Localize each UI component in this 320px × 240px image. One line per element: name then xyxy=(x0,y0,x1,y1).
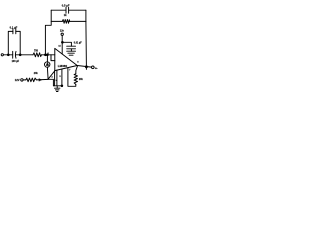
svg-text:0.1 µF: 0.1 µF xyxy=(10,25,18,29)
node A xyxy=(7,54,9,56)
resistor R1 750 xyxy=(33,53,42,57)
svg-text:0.01 µF: 0.01 µF xyxy=(74,43,82,45)
svg-text:14: 14 xyxy=(58,44,61,47)
resistor R2 1k xyxy=(62,20,69,24)
output terminal xyxy=(92,66,95,69)
svg-text:20k: 20k xyxy=(79,79,84,81)
capacitor C1 0.1uF bypass loop xyxy=(8,31,13,54)
svg-text:12v: 12v xyxy=(60,30,65,33)
resistor R4 20k vertical xyxy=(74,74,77,85)
input terminal xyxy=(1,54,3,56)
svg-text:0.5 µF: 0.5 µF xyxy=(62,3,70,7)
svg-text:8: 8 xyxy=(77,62,79,64)
op-amp U1 LM380 xyxy=(55,48,77,70)
svg-text:12V: 12V xyxy=(15,78,20,82)
current source Q1 xyxy=(46,55,48,62)
wire ground rail xyxy=(53,85,62,87)
wire pin 2 diagonal xyxy=(48,71,54,79)
node C xyxy=(45,54,47,56)
resistor R3 20k xyxy=(26,78,37,82)
wire with arrow xyxy=(37,78,49,81)
wire feedback top rail xyxy=(51,9,66,11)
capacitor C2 100uF electrolytic xyxy=(12,51,14,58)
capacitor C3 0.5uF xyxy=(65,7,67,13)
svg-text:750: 750 xyxy=(34,50,39,53)
node D xyxy=(62,41,64,43)
svg-text:5: 5 xyxy=(60,76,62,78)
wire lead to R4 xyxy=(76,66,78,74)
svg-text:100 µF: 100 µF xyxy=(12,60,20,63)
wire xyxy=(42,54,55,56)
wire xyxy=(3,54,12,56)
svg-text:20k: 20k xyxy=(34,73,39,75)
node E xyxy=(85,66,87,68)
node B xyxy=(19,54,21,56)
12V supply terminal xyxy=(61,33,63,35)
ground xyxy=(67,50,76,52)
12V terminal lower xyxy=(21,79,23,81)
wire stub below node E xyxy=(85,67,87,70)
wire feedback right leg xyxy=(85,10,87,21)
svg-text:2: 2 xyxy=(52,76,54,78)
wire feedback bottom rail xyxy=(51,20,62,22)
wire bottom loop xyxy=(68,68,76,87)
capacitor C4 bypass to ground xyxy=(62,42,71,46)
wire node F to ground rail xyxy=(48,79,53,86)
svg-text:3 4: 3 4 xyxy=(54,79,58,82)
svg-text:1k: 1k xyxy=(64,14,67,17)
wire output xyxy=(77,66,91,68)
ground pins under op-amp xyxy=(54,71,56,86)
svg-text:Vo: Vo xyxy=(95,68,98,70)
wire xyxy=(16,54,33,56)
wire feedback left leg xyxy=(45,10,51,55)
wire input stub to pin 2 xyxy=(51,55,55,61)
svg-text:7: 7 xyxy=(69,70,71,72)
svg-text:LM380: LM380 xyxy=(58,64,68,68)
ground xyxy=(56,86,58,88)
